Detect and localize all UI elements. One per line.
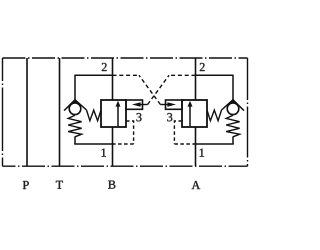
right pilot arrow (filled, pointing right) <box>167 102 176 107</box>
left check valve vertical spring <box>68 115 81 137</box>
right branch lower line <box>232 137 234 145</box>
left valve envelope top edge <box>75 74 113 76</box>
left label 3 <box>137 113 142 121</box>
left seat apex wedge <box>71 99 79 103</box>
port line P <box>26 58 28 166</box>
port line A (lower segment) <box>195 128 197 167</box>
right box internal up arrow <box>189 106 191 127</box>
left branch upper line <box>74 75 76 100</box>
left drain dashes (box to elbow) <box>126 121 134 144</box>
left drain dashes (elbow to port B) <box>113 143 134 145</box>
port label B <box>108 181 115 189</box>
left pilot arrow (filled, pointing left) <box>132 102 141 107</box>
port label T <box>56 181 63 189</box>
pilot dashed horizontal to port B <box>113 74 140 76</box>
left box internal up arrow <box>117 106 119 127</box>
right check valve ball <box>227 103 239 115</box>
right pilot diagonal (dashed, to B side) <box>139 75 160 104</box>
pilot dashed horizontal to port A <box>169 74 196 76</box>
right valve envelope bottom edge <box>196 143 234 145</box>
left label 2 <box>102 63 107 71</box>
port line A (upper segment) <box>195 58 197 100</box>
right check valve seat <box>222 100 245 111</box>
left check valve seat <box>64 100 87 111</box>
left pilot arrow tail <box>140 104 147 106</box>
right drain dashes (box to elbow) <box>174 121 182 144</box>
right branch upper line <box>232 75 234 100</box>
left pilot stub <box>126 100 143 109</box>
left valve envelope bottom edge <box>74 143 112 145</box>
port label A <box>192 181 201 189</box>
right horizontal spring <box>207 110 222 121</box>
right pilot stub <box>166 100 183 109</box>
port line T <box>59 58 61 166</box>
left pilot diagonal (dashed, to A side) <box>148 75 169 104</box>
port line B (upper segment) <box>112 58 114 100</box>
right check valve vertical spring <box>226 115 239 137</box>
left check valve ball <box>69 103 81 115</box>
right label 1 <box>200 149 204 157</box>
left pilot piston box <box>101 100 126 127</box>
left branch lower line <box>74 137 76 145</box>
right pilot arrow tail <box>160 104 167 106</box>
enclosure border (chain line) <box>3 58 248 166</box>
port line B (lower segment) <box>112 127 114 166</box>
right label 3 <box>167 113 172 121</box>
port label P <box>23 181 29 189</box>
left horizontal spring <box>87 110 102 121</box>
right label 2 <box>200 63 205 71</box>
right pilot piston box <box>182 100 207 127</box>
left label 1 <box>102 149 106 157</box>
right drain dashes (elbow to port A) <box>174 143 195 145</box>
right seat apex wedge <box>229 99 237 103</box>
right valve envelope top edge <box>196 74 234 76</box>
